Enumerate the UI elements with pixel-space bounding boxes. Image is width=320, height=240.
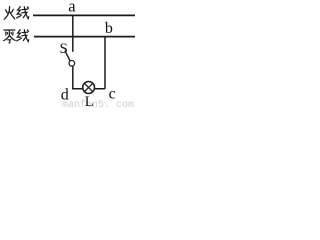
svg-text:c: c — [109, 86, 116, 103]
svg-text:a: a — [68, 0, 76, 16]
svg-text:b: b — [105, 20, 113, 37]
svg-text:d: d — [61, 87, 69, 104]
svg-text:S: S — [60, 41, 68, 57]
svg-text:manfen5. com: manfen5. com — [62, 99, 134, 108]
svg-text:L: L — [85, 94, 94, 108]
